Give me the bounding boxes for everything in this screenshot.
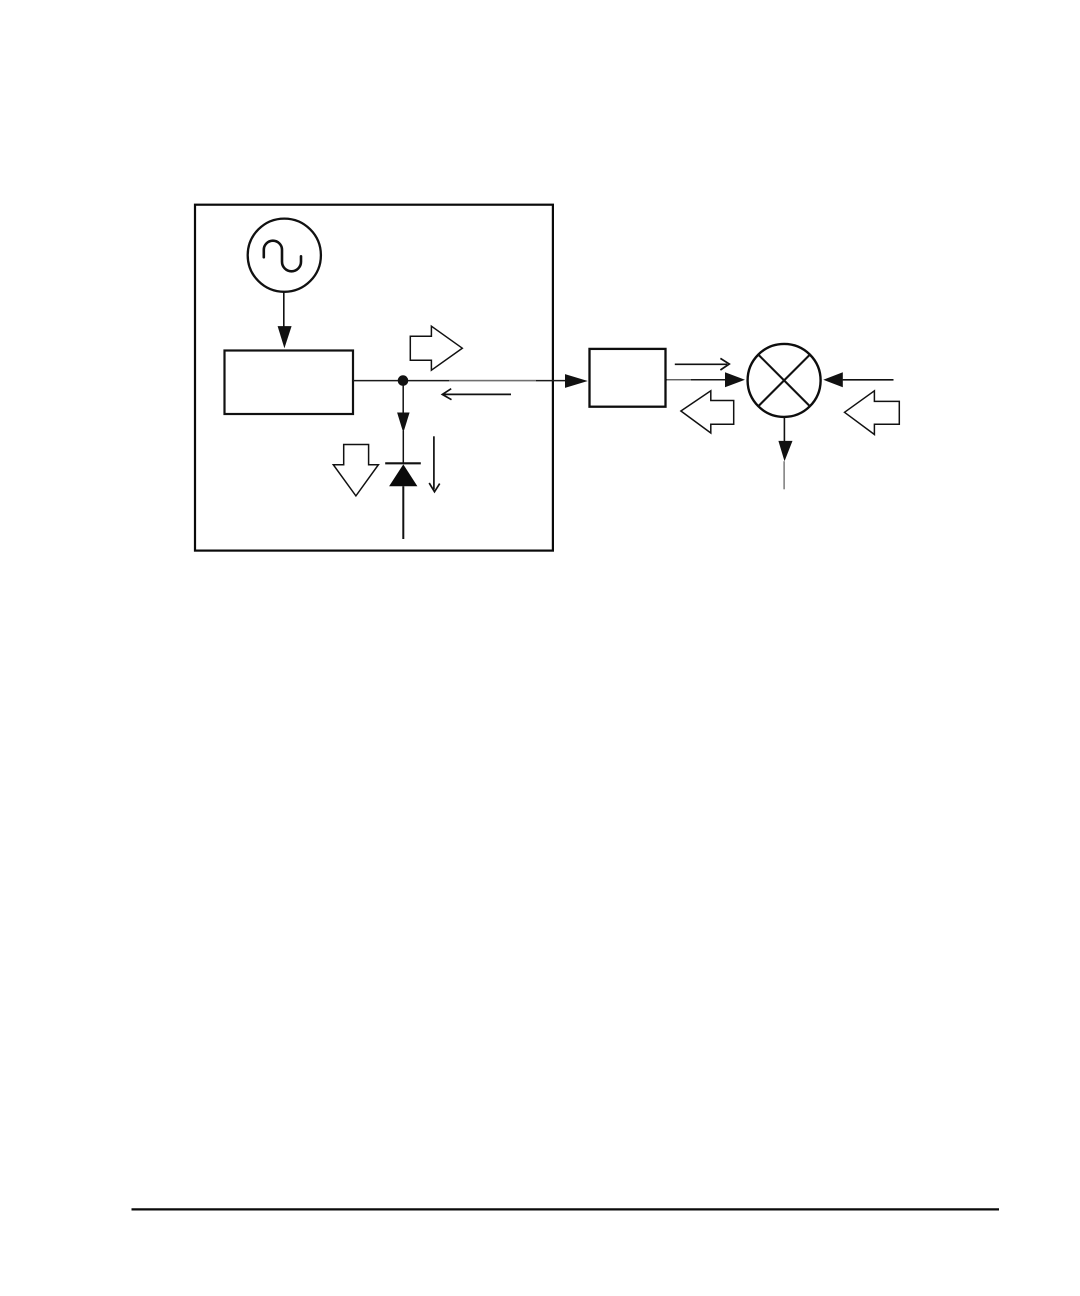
arrowhead: into mixer left port <box>725 372 745 387</box>
arrow: reflected signal (thin left arrow) <box>444 393 512 395</box>
wire: mixer IF output down <box>783 417 785 442</box>
block arrow: reverse signal (left, middle) <box>681 391 734 433</box>
arrowhead: IF output down <box>778 441 792 461</box>
node: junction dot <box>398 375 409 386</box>
wire: block output to port <box>353 380 566 382</box>
enclosure box (signal source unit) <box>195 205 553 551</box>
arrow: transmitted signal (thin right arrow) <box>675 363 727 365</box>
mixer X stroke 1 <box>758 355 810 407</box>
footer rule <box>132 1208 1000 1210</box>
wire: IF output tail <box>783 461 785 489</box>
diode cathode bar <box>385 462 421 464</box>
wire: device box to mixer <box>666 379 728 381</box>
arrowhead: into device box <box>565 374 588 388</box>
wire: arrowhead to cathode bar <box>402 431 404 463</box>
block arrow: detected signal (down) <box>333 445 378 496</box>
wire: diode anode down <box>402 486 404 539</box>
wire: grey overlap segment 2 <box>667 379 691 381</box>
wire: LO input from right <box>843 379 894 381</box>
arrowhead: source into block <box>278 326 292 348</box>
wire: grey overlap segment <box>449 380 536 382</box>
diode triangle (anode) <box>389 464 417 486</box>
mixer X stroke 2 <box>758 355 810 407</box>
arrowhead: into mixer right port <box>823 372 843 387</box>
arrow: diode current direction (thin down arrow) <box>433 436 435 489</box>
sine wave symbol <box>264 241 301 272</box>
arrowhead: down into diode <box>397 413 410 433</box>
block arrow: incident signal (right) <box>410 326 462 370</box>
AC source circle <box>248 219 321 292</box>
mixer circle <box>748 344 821 417</box>
wire: source to block <box>283 292 285 330</box>
block: oscillator output box <box>225 351 354 415</box>
wire: node down to diode <box>402 384 404 415</box>
device box (attenuator) <box>590 349 666 407</box>
block arrow: LO signal (left, right side) <box>845 391 900 435</box>
